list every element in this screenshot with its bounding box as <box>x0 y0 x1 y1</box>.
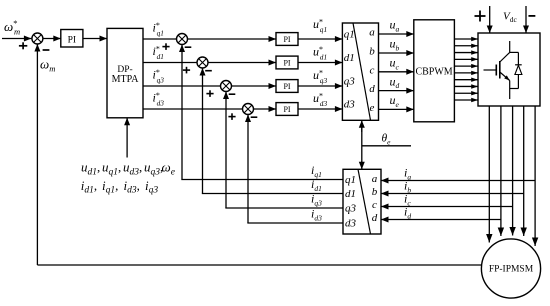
svg-text:d3: d3 <box>345 218 357 230</box>
svg-text:c: c <box>372 199 377 211</box>
svg-text:d: d <box>372 212 378 224</box>
svg-text:e: e <box>370 102 375 114</box>
svg-text:b: b <box>369 46 375 58</box>
svg-text:PI: PI <box>283 105 290 114</box>
svg-text:b: b <box>372 186 378 198</box>
svg-text:q1: q1 <box>345 174 356 186</box>
svg-text:d1: d1 <box>344 52 355 64</box>
svg-text:q3: q3 <box>345 203 357 215</box>
svg-text:FP-IPMSM: FP-IPMSM <box>489 265 534 275</box>
svg-text:d3: d3 <box>344 99 356 111</box>
svg-text:q1: q1 <box>344 29 355 41</box>
svg-text:c: c <box>370 64 375 76</box>
svg-text:d1: d1 <box>345 188 356 200</box>
svg-text:a: a <box>372 173 378 185</box>
svg-text:a: a <box>369 27 375 39</box>
svg-text:MTPA: MTPA <box>112 74 140 85</box>
svg-text:PI: PI <box>283 58 290 67</box>
svg-text:PI: PI <box>68 35 76 45</box>
svg-text:q3: q3 <box>344 76 356 88</box>
svg-text:CBPWM: CBPWM <box>415 67 452 78</box>
svg-text:d: d <box>369 83 375 95</box>
svg-text:PI: PI <box>283 82 290 91</box>
svg-text:PI: PI <box>283 35 290 44</box>
